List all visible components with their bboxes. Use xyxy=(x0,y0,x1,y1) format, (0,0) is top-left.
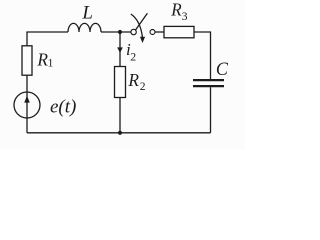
svg-text:R: R xyxy=(170,0,182,20)
svg-text:2: 2 xyxy=(140,81,146,93)
svg-text:1: 1 xyxy=(48,58,54,70)
svg-text:2: 2 xyxy=(130,52,136,64)
svg-text:R: R xyxy=(127,70,139,90)
svg-text:e(t): e(t) xyxy=(50,96,76,117)
svg-text:L: L xyxy=(81,3,93,24)
svg-text:C: C xyxy=(216,59,228,80)
svg-text:R: R xyxy=(36,49,48,69)
svg-text:3: 3 xyxy=(182,11,188,23)
